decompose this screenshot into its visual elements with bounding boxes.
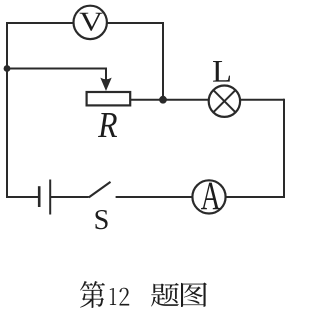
voltmeter circle bbox=[74, 6, 107, 39]
ammeter circle bbox=[192, 180, 225, 213]
caption hanzi di4 (first) bbox=[80, 281, 105, 308]
switch S lever bbox=[89, 182, 111, 198]
lamp cross stroke 1 bbox=[213, 90, 235, 112]
lamp cross stroke 2 bbox=[213, 90, 235, 112]
wire switch pivot to battery positive plate bbox=[51, 196, 89, 198]
wire from node A to slider corner bbox=[6, 68, 106, 70]
wire rheostat right terminal to node B bbox=[130, 99, 163, 101]
node B junction dot bbox=[159, 96, 167, 104]
caption hanzi tu2 (figure) bbox=[181, 283, 207, 307]
lamp label L bbox=[213, 61, 230, 82]
caption hanzi ti2 (problem) bbox=[151, 283, 179, 306]
voltmeter label V bbox=[80, 13, 103, 31]
wire left side vertical bbox=[6, 22, 8, 198]
battery negative plate (short) bbox=[38, 186, 41, 207]
wire slider arrow shaft bbox=[105, 68, 107, 81]
wire top side: voltmeter to top-right corner bbox=[108, 22, 164, 24]
node A junction dot bbox=[4, 65, 11, 72]
rheostat R body rectangle bbox=[87, 92, 131, 105]
caption digit 1 bbox=[110, 288, 116, 305]
rheostat R slider arrowhead bbox=[100, 78, 111, 91]
wire battery negative plate to bottom-left corner bbox=[6, 196, 38, 198]
wire top side: left corner to voltmeter bbox=[7, 22, 73, 24]
switch label S bbox=[95, 210, 107, 229]
battery positive plate (long) bbox=[49, 180, 51, 215]
wire ammeter to switch right terminal bbox=[116, 196, 193, 198]
caption digit 2 bbox=[119, 288, 129, 306]
lamp circle bbox=[209, 86, 240, 117]
wire bottom: right corner to ammeter bbox=[226, 196, 285, 198]
wire right side vertical bbox=[283, 99, 285, 197]
ammeter label A bbox=[201, 183, 220, 210]
rheostat value label R bbox=[98, 113, 117, 137]
wire lamp to right corner bbox=[240, 99, 284, 101]
wire right drop: top corner down to middle node B bbox=[162, 22, 164, 100]
wire node B to lamp bbox=[163, 99, 209, 101]
